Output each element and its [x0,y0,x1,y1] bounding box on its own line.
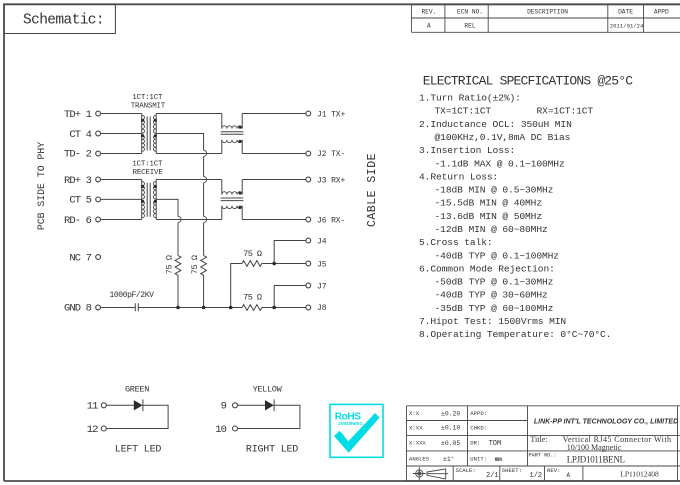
LED D2 diode symbol [265,399,274,411]
svg-text:REV:: REV: [547,467,560,474]
LED D1 diode symbol [134,399,143,411]
svg-text:5.Cross talk:: 5.Cross talk: [419,237,493,248]
ELECTRICAL SPECIFICATIONS text [419,73,633,340]
pin GND 8 [64,303,101,315]
svg-text:APPD: APPD [654,8,669,15]
svg-text:GND 8: GND 8 [64,303,92,315]
svg-text:8.Operating Temperature: 0°C~7: 8.Operating Temperature: 0°C~70°C. [419,329,611,340]
pin 9 [221,401,238,413]
svg-text:RD- 6: RD- 6 [64,215,92,227]
svg-text:J3 RX+: J3 RX+ [317,177,346,186]
svg-text:PCB SIDE TO PHY: PCB SIDE TO PHY [36,142,47,230]
svg-text:DATE: DATE [618,8,633,15]
label RIGHT LED [246,445,298,456]
label LEFT LED [115,445,162,456]
svg-text:CT 4: CT 4 [69,129,91,141]
wire RD+ to T2 [101,179,142,181]
LED D2 label YELLOW [253,385,283,395]
svg-text:@100KHz,0.1V,8mA DC Bias: @100KHz,0.1V,8mA DC Bias [435,132,571,143]
svg-text:LP11012408: LP11012408 [620,470,659,479]
svg-text:X:XXX: X:XXX [409,440,426,447]
capacitor C1 1000pF/2KV [109,291,154,311]
svg-text:-15.5dB MIN @ 40MHz: -15.5dB MIN @ 40MHz [435,198,543,209]
pin J2 TX- [306,150,345,159]
pin RD- 6 [64,215,101,227]
LED D1 (green) wire loop [106,405,168,428]
svg-text:ANGLES: ANGLES [409,456,430,463]
svg-text:4.Return Loss:: 4.Return Loss: [419,171,498,182]
svg-text:APPD:: APPD: [470,410,487,417]
wire T1 top to choke L1 [156,113,222,115]
GND wire [101,307,243,309]
transformer T2 (1CT:1CT RECEIVE) [141,180,157,220]
svg-text:REL: REL [464,22,475,29]
wire CT5 to T2 [101,198,142,200]
LED D1 label GREEN [125,385,149,395]
svg-text:NC 7: NC 7 [69,252,91,264]
svg-text:J5: J5 [317,261,327,270]
resistor R1 75ohm (receive CT) [165,255,181,307]
svg-text:2.Inductance OCL: 350uH MIN: 2.Inductance OCL: 350uH MIN [419,119,572,130]
wire TD+ to T1 [101,113,142,115]
svg-text:-40dB TYP @ 0.1~100MHz: -40dB TYP @ 0.1~100MHz [435,250,559,261]
svg-text:TD- 2: TD- 2 [64,149,92,161]
svg-text:1000pF/2KV: 1000pF/2KV [109,291,154,300]
svg-text:A: A [427,22,431,29]
svg-text:2/1: 2/1 [486,472,499,480]
svg-text:RIGHT LED: RIGHT LED [246,445,298,456]
svg-text:±1°: ±1° [443,455,455,463]
svg-text:-40dB TYP @ 30~60MHz: -40dB TYP @ 30~60MHz [435,290,548,301]
svg-text:TD+ 1: TD+ 1 [64,109,92,121]
pin NC 7 [69,252,100,264]
wire T2 top to choke L2 [156,179,222,181]
pin 10 [215,424,237,436]
svg-text:-1.1dB MAX @ 0.1~100MHz: -1.1dB MAX @ 0.1~100MHz [435,158,565,169]
svg-text:X:X: X:X [409,410,420,417]
svg-text:SHEET:: SHEET: [502,467,522,474]
pin RD+ 3 [64,175,101,187]
svg-text:-18dB MIN @ 0.5~30MHz: -18dB MIN @ 0.5~30MHz [435,185,554,196]
LED D2 (yellow) wire loop [238,405,300,428]
svg-text:LINK-PP INT'L TECHNOLOGY CO.,: LINK-PP INT'L TECHNOLOGY CO., LIMITED [534,418,678,425]
wire J4 riser [274,241,306,264]
svg-text:7.Hipot Test: 1500Vrms MIN: 7.Hipot Test: 1500Vrms MIN [419,316,566,327]
choke L1 (common mode, transmit) [221,114,244,154]
svg-text:J4: J4 [317,237,327,246]
svg-text:6.Common Mode Rejection:: 6.Common Mode Rejection: [419,263,555,274]
pin 11 [87,401,107,413]
svg-text:1CT:1CT: 1CT:1CT [132,161,163,169]
svg-text:J1 TX+: J1 TX+ [317,110,346,119]
svg-text:12: 12 [87,424,98,436]
svg-text:1.Turn Ratio(±2%):: 1.Turn Ratio(±2%): [419,93,521,104]
svg-text:11: 11 [87,401,98,413]
svg-text:CHKD:: CHKD: [470,424,487,431]
svg-text:J6 RX-: J6 RX- [317,216,345,225]
svg-text:9: 9 [221,401,227,413]
svg-text:YELLOW: YELLOW [253,385,283,395]
svg-text:J7: J7 [317,283,327,292]
svg-text:10/100 Magnetic: 10/100 Magnetic [567,443,622,452]
svg-text:-35dB TYP @ 60~100MHz: -35dB TYP @ 60~100MHz [435,303,554,314]
svg-text:Schematic:: Schematic: [23,13,104,29]
wire CT4 to T1 [101,133,142,135]
svg-text:±0.20: ±0.20 [441,410,460,417]
pin J4 [306,237,327,246]
pin J3 RX+ [306,177,346,186]
svg-text:GREEN: GREEN [125,385,149,395]
svg-text:J2 TX-: J2 TX- [317,150,345,159]
svg-text:CABLE SIDE: CABLE SIDE [366,153,379,227]
svg-text:J8: J8 [317,304,327,313]
svg-text:mm: mm [495,456,503,463]
svg-text:TRANSMIT: TRANSMIT [131,103,166,111]
pin J8 [306,304,327,313]
pin J5 [306,261,327,270]
wire RD- to T2 [101,219,142,221]
svg-text:75 Ω: 75 Ω [190,255,200,274]
wire choke L1 to J1 [242,113,306,115]
resistor R4 75ohm (in GND line to J8) [242,293,306,311]
svg-text:75 Ω: 75 Ω [165,255,175,274]
svg-text:Title:: Title: [530,435,547,444]
svg-text:-50dB TYP @ 0.1~30MHz: -50dB TYP @ 0.1~30MHz [435,277,554,288]
pin CT 5 [69,194,100,206]
wire choke L2 to J6 [242,219,306,221]
svg-text:CT 5: CT 5 [69,194,91,206]
RoHS logo [330,404,383,457]
label transformer T2 [132,161,163,178]
wire T1 bottom to choke L1 [156,153,222,155]
pin J6 RX- [306,216,345,225]
pin CT 4 [69,129,100,141]
wire riser to R3 [231,264,242,308]
svg-text:10: 10 [215,424,226,436]
svg-text:UNIT:: UNIT: [470,456,487,463]
svg-text:X:XX: X:XX [409,424,423,431]
wire J7 riser [274,286,306,308]
resistor R3 75ohm (to J5) [242,249,306,267]
revision table [411,5,680,33]
svg-text:LEFT LED: LEFT LED [115,445,162,456]
pin J1 TX+ [306,110,346,119]
svg-text:1/2: 1/2 [530,472,543,480]
pin 12 [87,424,107,436]
pin TD+ 1 [64,109,101,121]
Schematic title box [4,4,115,33]
transformer T1 (1CT:1CT TRANSMIT) [141,114,157,154]
svg-text:-12dB MIN @ 60~80MHz: -12dB MIN @ 60~80MHz [435,224,548,235]
choke L2 (common mode, receive) [221,180,244,220]
svg-text:TX=1CT:1CT: TX=1CT:1CT [435,106,492,117]
svg-text:RD+ 3: RD+ 3 [64,175,92,187]
svg-text:2011/01/24: 2011/01/24 [610,22,644,29]
projection symbol [413,467,448,480]
svg-text:RECEIVE: RECEIVE [133,169,164,177]
svg-text:SCALE:: SCALE: [456,467,476,474]
svg-text:75 Ω: 75 Ω [243,249,262,259]
pin J7 [306,283,327,292]
svg-text:ECN NO.: ECN NO. [457,8,483,15]
wire TD- to T1 [101,153,142,155]
svg-text:±0.10: ±0.10 [441,425,460,432]
svg-text:DR:: DR: [470,440,480,447]
wire choke L2 to J3 [242,179,306,181]
PCB SIDE TO PHY label [36,142,47,230]
resistor R2 75ohm (transmit CT) [190,255,206,307]
svg-text:3.Insertion Loss:: 3.Insertion Loss: [419,145,515,156]
svg-text:DESCRIPTION: DESCRIPTION [527,8,568,15]
svg-text:A: A [567,472,571,479]
svg-text:±0.05: ±0.05 [441,440,460,447]
wire T1 center tap down (with hops) [156,134,207,256]
svg-text:75 Ω: 75 Ω [243,293,262,303]
CABLE SIDE label [366,153,379,227]
junction dots [176,262,276,310]
svg-text:ELECTRICAL SPECFICATIONS @25°C: ELECTRICAL SPECFICATIONS @25°C [423,73,633,88]
wire T2 center tap down (with hop) [156,199,181,255]
svg-text:1CT:1CT: 1CT:1CT [132,94,163,102]
label transformer T1 [131,94,166,111]
svg-text:RX=1CT:1CT: RX=1CT:1CT [537,106,594,117]
svg-text:REV.: REV. [421,8,436,15]
pin TD- 2 [64,149,101,161]
svg-text:TOM: TOM [489,440,502,448]
svg-text:PART NO.:: PART NO.: [529,453,557,459]
svg-text:2002/95/EC: 2002/95/EC [338,421,363,426]
svg-text:-13.6dB MIN @ 50MHz: -13.6dB MIN @ 50MHz [435,211,543,222]
title block [407,406,680,481]
wire T2 bottom to choke L2 [156,219,222,221]
wire choke L1 to J2 [242,153,306,155]
svg-text:LPJD1011BENL: LPJD1011BENL [567,455,625,465]
